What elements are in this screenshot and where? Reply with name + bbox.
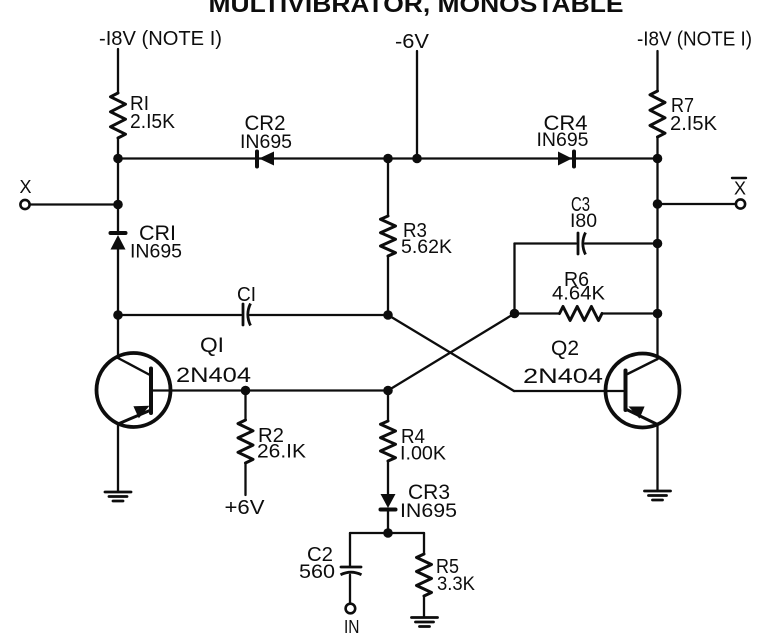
- ground Q2 emitter: [645, 490, 671, 493]
- wire C3 horizontal right: [585, 242, 658, 244]
- node R3-bus junction: [383, 154, 393, 164]
- resistor R5: [423, 533, 425, 554]
- wire bus left segment: [118, 157, 388, 159]
- resistor R1: [111, 93, 126, 138]
- wire right rail Xbar to C3 node: [656, 204, 658, 244]
- svg-text:-I8V (NOTE I): -I8V (NOTE I): [637, 29, 752, 51]
- svg-text:2.I5K: 2.I5K: [670, 113, 718, 135]
- node R6 right junction: [653, 309, 663, 319]
- wire cross-coupling Q1 base to R6 node: [388, 314, 515, 391]
- svg-text:+6V: +6V: [225, 497, 266, 519]
- wire C3 left vertical: [513, 244, 515, 314]
- diode CR4 1N695: [572, 152, 576, 167]
- diode CR3 1N695: [381, 494, 396, 508]
- transistor Q1 2N404: [97, 353, 171, 427]
- wire R6 left lead: [515, 312, 560, 314]
- ground Q1 emitter: [105, 491, 131, 494]
- svg-text:I80: I80: [570, 211, 597, 232]
- svg-text:2N404: 2N404: [176, 364, 251, 387]
- svg-text:X: X: [734, 179, 746, 199]
- resistor R2: [244, 391, 246, 421]
- wire R3 bottom lead: [387, 256, 389, 315]
- wire left rail top: [117, 49, 119, 93]
- wire bottom junction horizontal: [350, 532, 424, 534]
- svg-text:Q2: Q2: [551, 337, 579, 360]
- wire R6 right lead: [602, 312, 658, 314]
- svg-text:IN695: IN695: [400, 501, 457, 522]
- wire left rail R1 to CR1: [117, 138, 119, 231]
- wire C1 right segment: [250, 314, 388, 316]
- svg-text:QI: QI: [200, 334, 224, 357]
- node X junction: [113, 200, 123, 210]
- node CR4-right-rail junction: [653, 154, 663, 164]
- transistor Q2 2N404: [606, 354, 680, 428]
- node R6 left junction: [510, 309, 520, 319]
- node Xbar junction: [653, 199, 663, 209]
- resistor R3: [381, 216, 396, 256]
- svg-text:560: 560: [299, 562, 335, 583]
- capacitor C3 180: [577, 233, 580, 254]
- wire left rail C1 node to Q1 collector: [117, 315, 119, 358]
- svg-text:3.3K: 3.3K: [437, 574, 475, 595]
- diode CR1 1N695: [111, 231, 126, 235]
- wire bus right segment: [417, 157, 658, 159]
- svg-text:CI: CI: [237, 284, 256, 306]
- svg-text:IN695: IN695: [537, 130, 589, 151]
- wire C1 left segment: [118, 314, 241, 316]
- svg-text:I.00K: I.00K: [400, 444, 446, 465]
- node C1 left junction: [113, 310, 123, 320]
- svg-text:4.64K: 4.64K: [552, 284, 605, 305]
- svg-text:IN695: IN695: [240, 132, 292, 153]
- resistor R6: [560, 307, 603, 321]
- svg-text:IN: IN: [344, 617, 360, 637]
- svg-text:-I8V (NOTE I): -I8V (NOTE I): [99, 28, 222, 50]
- node C2-R5 junction: [383, 528, 393, 538]
- wire right rail top: [656, 51, 658, 91]
- wire left rail CR1 to C1 node: [117, 250, 119, 316]
- wire C3 horizontal left: [515, 242, 577, 244]
- node Q1 base / R4 junction: [383, 386, 393, 396]
- wire -6V rail: [416, 51, 418, 159]
- wire CR3 to bottom junction: [387, 510, 389, 534]
- svg-text:2N404: 2N404: [523, 365, 603, 388]
- node C3 right junction: [653, 239, 663, 249]
- wire right rail R6 node to Q2 collector: [656, 314, 658, 360]
- wire bus middle segment: [388, 157, 417, 159]
- node -6V-bus junction: [412, 154, 422, 164]
- wire cross-coupling R3node to Q2 base: [388, 315, 514, 391]
- wire right rail R7 to bus: [656, 137, 658, 159]
- capacitor C2 560: [349, 533, 351, 566]
- wire Q1 emitter to ground: [117, 424, 119, 492]
- resistor R4: [387, 391, 389, 422]
- terminal IN: [346, 604, 356, 614]
- ground R5: [412, 616, 438, 619]
- svg-text:IN695: IN695: [130, 242, 182, 263]
- svg-text:26.IK: 26.IK: [257, 442, 306, 463]
- node C1-R3 junction: [383, 310, 393, 320]
- diode CR2 1N695: [255, 152, 259, 167]
- wire C2 to IN terminal: [349, 575, 351, 603]
- wire right rail C3 to R6: [656, 244, 658, 314]
- node Q1 collector-bus junction: [113, 154, 123, 164]
- wire Q1 base line: [153, 389, 388, 391]
- svg-text:-6V: -6V: [395, 31, 430, 53]
- svg-text:X: X: [20, 177, 32, 197]
- wire R3 top lead: [387, 159, 389, 217]
- wire Q2 emitter to ground: [656, 425, 658, 492]
- resistor R7: [650, 91, 665, 137]
- svg-text:5.62K: 5.62K: [401, 237, 452, 258]
- wire right rail bus to Xbar node: [656, 159, 658, 205]
- svg-text:2.I5K: 2.I5K: [130, 111, 176, 133]
- svg-text:MULTIVIBRATOR, MONOSTABLE: MULTIVIBRATOR, MONOSTABLE: [209, 0, 624, 18]
- node R2 junction: [241, 386, 251, 396]
- capacitor C1: [242, 304, 245, 325]
